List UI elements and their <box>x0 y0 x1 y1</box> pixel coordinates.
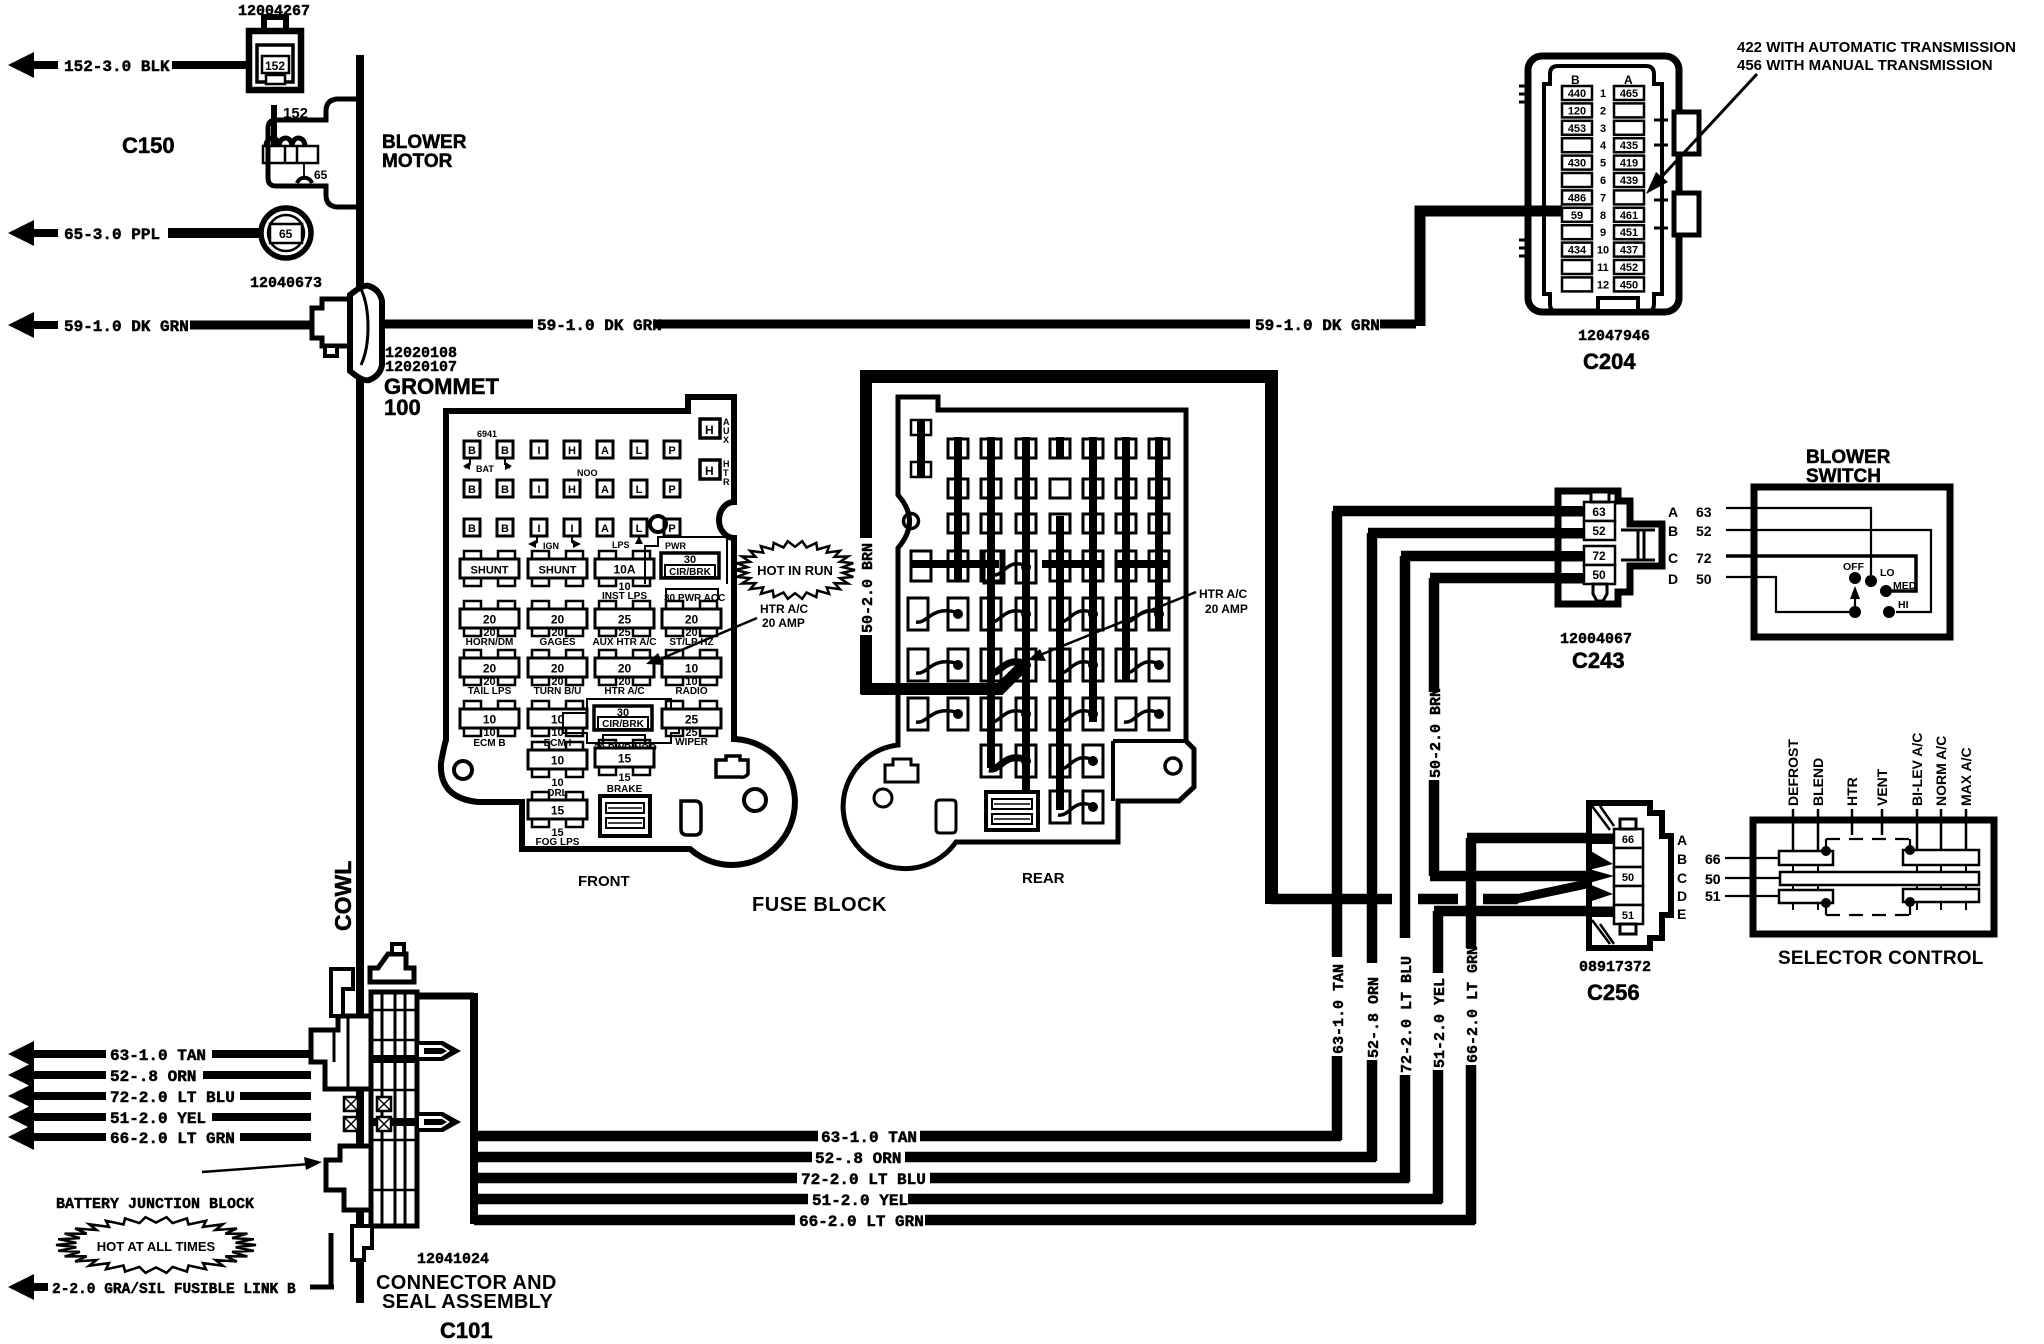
selector bar 51 right <box>1903 889 1979 902</box>
svg-text:D: D <box>1668 571 1678 587</box>
wire 72-2.0 LT BLU vertical upper <box>1400 556 1411 938</box>
svg-text:E: E <box>1677 906 1686 922</box>
svg-text:65: 65 <box>279 227 293 241</box>
pin row 1 <box>1562 86 1592 100</box>
wire 63 to C243 pin A <box>1333 506 1588 517</box>
svg-text:486: 486 <box>1568 192 1586 204</box>
svg-text:A: A <box>601 523 609 535</box>
wire arrow 63-1.0 TAN <box>8 1041 106 1067</box>
svg-text:435: 435 <box>1620 140 1638 152</box>
svg-text:DRL: DRL <box>547 788 568 799</box>
svg-text:20: 20 <box>618 662 632 676</box>
svg-text:C101: C101 <box>440 1318 493 1343</box>
svg-text:10: 10 <box>483 713 497 727</box>
svg-text:8: 8 <box>1600 210 1606 222</box>
svg-text:72-2.0 LT BLU: 72-2.0 LT BLU <box>801 1171 926 1189</box>
wire 72 to C243 pin C <box>1401 551 1588 562</box>
svg-text:R: R <box>723 477 730 487</box>
svg-text:12004067: 12004067 <box>1560 631 1632 648</box>
svg-text:66-2.0 LT GRN: 66-2.0 LT GRN <box>110 1130 235 1148</box>
C256 pin 66 (B) <box>1614 829 1643 848</box>
wire 66 into C256 pin B <box>1467 833 1614 844</box>
svg-text:A: A <box>1677 832 1687 848</box>
pin row 11 <box>1562 260 1592 274</box>
svg-text:B: B <box>1668 523 1678 539</box>
svg-text:B: B <box>468 523 476 535</box>
rear pocket c1 y649 <box>908 649 928 681</box>
wire 50-2.0 BRN into rear HTR A/C fuse <box>861 666 1023 689</box>
C256 pin 50 (C) <box>1614 867 1643 886</box>
svg-text:66-2.0 LT GRN: 66-2.0 LT GRN <box>799 1213 924 1231</box>
svg-text:HTR A/C: HTR A/C <box>604 686 644 697</box>
C204 inner housing <box>1544 66 1662 312</box>
wire 51-2.0 YEL vertical upper <box>1433 911 1444 973</box>
pin row 7 <box>1562 190 1592 204</box>
fuse block FRONT outline <box>441 397 795 865</box>
C243 top tab <box>1591 492 1609 502</box>
svg-text:65: 65 <box>314 168 328 182</box>
svg-text:I: I <box>537 523 540 535</box>
svg-text:461: 461 <box>1620 210 1638 222</box>
wire 50 wedge from fuse block <box>1516 879 1610 899</box>
svg-text:465: 465 <box>1620 88 1638 100</box>
svg-text:P: P <box>668 523 675 535</box>
selector bar 66 left <box>1779 851 1833 865</box>
AUX H cavity <box>700 419 720 438</box>
C204 right inner details <box>1654 120 1668 228</box>
svg-text:50: 50 <box>1705 871 1721 887</box>
svg-text:437: 437 <box>1620 245 1638 257</box>
fuse 15 BRAKE <box>599 740 616 749</box>
svg-text:P: P <box>668 484 675 496</box>
C243 plug detail <box>1621 530 1655 560</box>
contact OFF <box>1849 572 1861 584</box>
svg-text:51-2.0 YEL: 51-2.0 YEL <box>110 1110 206 1128</box>
svg-text:A: A <box>601 445 609 457</box>
pin row 2 <box>1562 103 1592 117</box>
wire 52-.8 ORN into C101 <box>203 1071 311 1079</box>
svg-text:52-.8 ORN: 52-.8 ORN <box>815 1150 901 1168</box>
svg-text:20: 20 <box>483 613 497 627</box>
svg-text:422 WITH AUTOMATIC TRANSMISSIO: 422 WITH AUTOMATIC TRANSMISSION <box>1737 39 2016 56</box>
wire 50-2.0 BRN rear block right drop <box>1265 370 1278 904</box>
svg-text:RADIO: RADIO <box>675 686 707 697</box>
front lobe small circle <box>744 789 766 811</box>
fuse 20 HTR A/C <box>599 650 616 659</box>
C243 pin 50 <box>1584 565 1615 584</box>
wiper junction <box>1849 606 1861 618</box>
wire stubs inside C256 <box>1589 834 1615 845</box>
svg-text:IGN: IGN <box>543 541 559 551</box>
rear pocket c3 row4 <box>984 551 1004 583</box>
svg-text:LO: LO <box>1880 567 1895 579</box>
svg-text:B: B <box>501 523 509 535</box>
svg-text:65-3.0 PPL: 65-3.0 PPL <box>64 226 160 244</box>
svg-text:I: I <box>570 523 573 535</box>
svg-text:C204: C204 <box>1583 349 1636 374</box>
C256 top tab <box>1620 819 1636 829</box>
rear bridge row c6-c7 <box>1116 551 1136 581</box>
svg-text:HOT IN RUN: HOT IN RUN <box>757 563 833 578</box>
svg-text:CIR/BRK: CIR/BRK <box>602 719 644 730</box>
selector wire 51 <box>1725 895 1779 897</box>
rear dual-slot receptacle <box>986 792 1038 830</box>
wire 52-.8 ORN bottom run <box>474 1152 812 1163</box>
wire arrow 65-3.0 PPL <box>8 220 263 246</box>
C243 pin 52 <box>1584 521 1615 540</box>
rear terminal clip rows <box>948 439 968 458</box>
C101 right pin upper <box>417 1041 461 1061</box>
svg-text:PWR: PWR <box>665 541 686 551</box>
svg-text:72-2.0 LT BLU: 72-2.0 LT BLU <box>110 1089 235 1107</box>
selector wire 66 <box>1725 857 1779 859</box>
label LPS with arrow <box>638 537 640 542</box>
leader arrow to HTR A/C fuse <box>658 618 757 660</box>
svg-text:08917372: 08917372 <box>1579 959 1651 976</box>
svg-text:WIPER: WIPER <box>675 737 709 748</box>
selector bar 51 left <box>1779 890 1833 903</box>
rear pocket c4-c5 y791 <box>1050 791 1070 823</box>
svg-text:450: 450 <box>1620 279 1638 291</box>
fuse SHUNT 1 <box>464 551 481 560</box>
svg-text:BLEND: BLEND <box>1810 758 1826 806</box>
lead 65 <box>303 163 305 177</box>
svg-text:BLOWER: BLOWER <box>382 132 467 153</box>
C204 left ridges <box>1519 86 1528 256</box>
svg-text:63: 63 <box>1696 504 1712 520</box>
leader arrow to pin 7A <box>1646 74 1757 194</box>
svg-text:51: 51 <box>1705 888 1721 904</box>
front mounting hole left <box>454 761 472 779</box>
wire 50 from rear block to C256 (segment 1) <box>1271 894 1392 905</box>
svg-text:9: 9 <box>1600 227 1606 239</box>
rear corner hole <box>1165 758 1181 774</box>
svg-text:FRONT: FRONT <box>578 873 630 890</box>
switch wire 50 (D) common <box>1726 577 1852 612</box>
svg-text:456 WITH MANUAL TRANSMISSION: 456 WITH MANUAL TRANSMISSION <box>1737 57 1993 74</box>
grommet 100 <box>312 286 382 381</box>
cowl line <box>356 55 364 1303</box>
svg-text:HORN/DM: HORN/DM <box>466 637 514 648</box>
pin row 12 <box>1562 277 1592 291</box>
rear lobe pill hole <box>936 800 956 833</box>
PWR ACC breaker surround <box>645 537 727 584</box>
svg-text:BATTERY JUNCTION BLOCK: BATTERY JUNCTION BLOCK <box>56 1196 254 1213</box>
wire arrow 152-3.0 BLK <box>8 52 250 78</box>
svg-text:HI: HI <box>1898 599 1909 611</box>
connector C204 ECM shell <box>1519 56 1699 312</box>
svg-text:52: 52 <box>1696 523 1712 539</box>
svg-text:50-2.0 BRN: 50-2.0 BRN <box>860 543 877 633</box>
fuse SHUNT 2 <box>532 551 549 560</box>
C256 pin cavity 2 <box>1614 848 1643 867</box>
C101 left flange upper <box>311 1016 371 1089</box>
wiper arrow to OFF <box>1854 593 1856 612</box>
svg-text:15: 15 <box>551 804 565 818</box>
switch wire 63 (A) <box>1726 508 1871 575</box>
rear bus bar stub c0 <box>911 420 931 435</box>
svg-text:20 AMP: 20 AMP <box>762 616 805 630</box>
wire 50 segment 2 <box>1418 894 1458 905</box>
svg-text:51-2.0 YEL: 51-2.0 YEL <box>812 1192 908 1210</box>
svg-text:66-2.0 LT GRN: 66-2.0 LT GRN <box>1465 946 1482 1063</box>
selector bar 50 <box>1780 872 1979 885</box>
svg-text:B: B <box>1677 851 1687 867</box>
svg-text:6941: 6941 <box>477 429 497 439</box>
svg-text:52: 52 <box>1592 524 1606 538</box>
pin row 3 <box>1562 121 1592 135</box>
svg-text:51: 51 <box>1622 910 1634 922</box>
connector C243 body <box>1558 491 1662 604</box>
fuse 20 ST/LP HZ <box>666 601 683 610</box>
svg-text:HOT AT ALL TIMES: HOT AT ALL TIMES <box>97 1239 216 1254</box>
fuse 10 ECM B <box>464 701 481 710</box>
wire 52-.8 ORN vertical lower <box>1367 1060 1378 1161</box>
svg-text:10A: 10A <box>613 563 635 577</box>
fuse 20 TURN B/U <box>532 650 549 659</box>
svg-text:C243: C243 <box>1572 648 1625 673</box>
HTR H cavity <box>700 460 720 479</box>
C256 circuit numbers 66 50 51 <box>1705 851 1721 904</box>
pin row 4 <box>1562 138 1592 152</box>
svg-text:50: 50 <box>1696 571 1712 587</box>
svg-text:20 AMP: 20 AMP <box>1205 602 1248 616</box>
svg-text:15: 15 <box>618 752 632 766</box>
svg-text:72-2.0 LT BLU: 72-2.0 LT BLU <box>1399 956 1416 1073</box>
wire bundle from C101 top <box>411 993 474 1000</box>
svg-text:H: H <box>568 484 576 496</box>
C256 pin letters A-E <box>1677 832 1687 922</box>
svg-text:2: 2 <box>1600 105 1606 117</box>
svg-text:C150: C150 <box>122 133 175 158</box>
wire arrow 2-2.0 GRA/SIL FUSIBLE LINK B <box>8 1274 48 1300</box>
C243 pin 72 <box>1584 546 1615 565</box>
svg-text:ECM B: ECM B <box>473 738 505 749</box>
fuse 10A INST LPS <box>599 551 616 560</box>
contact LO <box>1865 575 1877 587</box>
svg-text:439: 439 <box>1620 175 1638 187</box>
svg-text:I: I <box>537 484 540 496</box>
wire 50-2.0 BRN rear block top run <box>860 370 1278 383</box>
svg-text:A: A <box>601 484 609 496</box>
connector 12040673 (blower motor feed) <box>261 208 311 258</box>
pin row 8 <box>1562 208 1592 222</box>
svg-text:AUX HTR A/C: AUX HTR A/C <box>592 637 656 648</box>
wire arrow 51-2.0 YEL <box>8 1104 106 1130</box>
rear pocket c2-c3 y598 <box>981 598 1001 630</box>
rear pocket c2-c3 y649 <box>981 649 1001 681</box>
svg-text:52-.8 ORN: 52-.8 ORN <box>1366 977 1383 1058</box>
svg-text:66: 66 <box>1705 851 1721 867</box>
wire 66-2.0 LT GRN vertical upper <box>1466 838 1477 948</box>
fuse 20 GAGES <box>532 601 549 610</box>
connector C256 body <box>1589 803 1671 948</box>
wire arrow 59-1.0 DK GRN <box>8 312 310 338</box>
svg-text:152-3.0 BLK: 152-3.0 BLK <box>64 58 170 76</box>
svg-text:5: 5 <box>1600 158 1606 170</box>
svg-text:66: 66 <box>1622 834 1634 846</box>
svg-text:COWL: COWL <box>330 861 356 931</box>
blower motor resistor outline <box>263 99 358 207</box>
svg-text:B: B <box>501 445 509 457</box>
HOT AT ALL TIMES starburst <box>56 1217 256 1273</box>
svg-text:MOTOR: MOTOR <box>382 151 453 172</box>
fuse 10 ECM I <box>532 701 549 710</box>
svg-text:3: 3 <box>1600 123 1606 135</box>
fuse 10 DRL <box>532 742 549 751</box>
wire 51 into C256 pin E <box>1434 906 1614 917</box>
rear lobe square hole <box>885 759 918 782</box>
svg-text:L: L <box>636 523 643 535</box>
svg-text:I: I <box>537 445 540 457</box>
rear pocket c6-c7 y598 <box>1116 598 1136 630</box>
selector dashed link top <box>1826 839 1910 851</box>
contact HI <box>1883 606 1895 618</box>
C256 pin 51 (E) <box>1614 905 1643 924</box>
selector column ticks <box>1792 865 1794 910</box>
wire 72-2.0 LT BLU into C101 <box>240 1092 311 1100</box>
fuse 20 TAIL LPS <box>464 650 481 659</box>
svg-text:1: 1 <box>1600 88 1606 100</box>
svg-text:DEFROST: DEFROST <box>1785 739 1801 806</box>
wire 63-1.0 TAN vertical upper <box>1332 511 1343 957</box>
svg-text:63-1.0 TAN: 63-1.0 TAN <box>821 1129 917 1147</box>
circuit breaker 30 CIR/BRK PWR NOO <box>563 699 679 743</box>
svg-text:L: L <box>636 484 643 496</box>
front mounting hole right-mid <box>650 516 666 532</box>
C204 right lock tabs <box>1674 112 1699 154</box>
wire 50 segment 3 <box>1483 894 1518 905</box>
wire 50-2.0 BRN vertical lower <box>1429 780 1440 876</box>
wire 50 into C256 pin C <box>1430 871 1614 882</box>
front lobe square hole <box>716 756 748 777</box>
C101 crossed squares <box>344 1097 358 1111</box>
resistor element <box>263 146 318 163</box>
svg-text:59: 59 <box>1571 210 1583 222</box>
svg-text:NORM A/C: NORM A/C <box>1933 736 1949 806</box>
wire 66-2.0 LT GRN into C101 <box>240 1133 311 1141</box>
C243 pin 63 <box>1584 502 1615 521</box>
svg-text:TAIL LPS: TAIL LPS <box>468 686 512 697</box>
fuse block REAR outline <box>843 397 1194 869</box>
wire arrow 52-.8 ORN <box>8 1062 106 1088</box>
svg-text:REAR: REAR <box>1022 870 1065 887</box>
svg-text:BLOWER: BLOWER <box>1806 447 1891 468</box>
svg-text:20: 20 <box>551 662 565 676</box>
wire 59 into pin 8B overlay <box>1524 206 1562 217</box>
svg-text:MAX A/C: MAX A/C <box>1958 747 1974 806</box>
wire 51-2.0 YEL into C101 <box>212 1113 311 1121</box>
svg-text:HTR: HTR <box>1844 777 1860 806</box>
rear pocket c4-c5 y649 <box>1050 649 1070 681</box>
svg-text:25: 25 <box>685 713 699 727</box>
svg-text:H: H <box>568 445 576 457</box>
wire 52 to C243 pin B <box>1368 528 1588 539</box>
wire 50-2.0 BRN vertical upper (to C243 D) <box>1429 578 1440 692</box>
svg-text:HTR A/C: HTR A/C <box>1199 587 1248 601</box>
pin row 10 <box>1562 243 1592 257</box>
svg-text:B: B <box>468 445 476 457</box>
pin row 6 <box>1562 173 1592 187</box>
svg-text:453: 453 <box>1568 123 1586 135</box>
rear leader arrow to HTR A/C fuse <box>1040 592 1196 655</box>
blower switch housing <box>1754 487 1950 637</box>
rear pocket c1 y698 <box>908 698 928 730</box>
rear pocket c6-c7 y649 <box>1116 649 1136 681</box>
svg-text:10: 10 <box>1597 245 1609 257</box>
svg-text:63-1.0 TAN: 63-1.0 TAN <box>110 1047 206 1065</box>
svg-text:H: H <box>705 464 714 478</box>
svg-text:430: 430 <box>1568 158 1586 170</box>
rear pocket c4-c5 y598 <box>1050 598 1070 630</box>
svg-text:152: 152 <box>265 59 285 73</box>
svg-text:FUSE BLOCK: FUSE BLOCK <box>752 894 887 916</box>
svg-text:12047946: 12047946 <box>1578 328 1650 345</box>
svg-text:50-2.0 BRN: 50-2.0 BRN <box>1428 688 1445 778</box>
svg-text:SHUNT: SHUNT <box>539 565 577 577</box>
C256 bottom tab <box>1620 924 1636 934</box>
svg-text:A: A <box>1668 504 1678 520</box>
svg-text:50: 50 <box>1592 568 1606 582</box>
harness bundle drop <box>470 993 478 1224</box>
svg-text:7: 7 <box>1600 192 1606 204</box>
label IGN with arrows <box>533 537 576 545</box>
C101 bottom tail <box>352 1226 372 1260</box>
selector bar 66 right <box>1903 850 1979 865</box>
svg-text:12041024: 12041024 <box>417 1251 489 1268</box>
switch wire 52 (B) <box>1726 530 1931 612</box>
rear pocket c2-c3 y745 <box>981 745 1001 777</box>
wire 63-1.0 TAN bottom run <box>474 1131 818 1142</box>
svg-text:59-1.0 DK GRN: 59-1.0 DK GRN <box>537 317 662 335</box>
rear pocket c1 y598 <box>908 598 928 630</box>
wire 50 to C243 pin D <box>1430 573 1588 584</box>
svg-text:D: D <box>1677 888 1687 904</box>
wire arrow 72-2.0 LT BLU <box>8 1083 106 1109</box>
selector wire 50 <box>1725 877 1780 879</box>
svg-text:10: 10 <box>685 662 699 676</box>
front lobe pill hole <box>681 801 701 835</box>
C256 strain relief hatch <box>1592 806 1614 944</box>
C101 left hook <box>331 969 353 1016</box>
rear notch hole <box>904 514 919 529</box>
svg-text:12: 12 <box>1597 279 1609 291</box>
svg-text:MED: MED <box>1893 580 1917 592</box>
wire 72-2.0 LT BLU bottom run <box>474 1173 797 1184</box>
svg-text:51-2.0 YEL: 51-2.0 YEL <box>1432 978 1449 1068</box>
svg-text:50: 50 <box>1622 872 1634 884</box>
connector C150 body <box>249 17 301 90</box>
svg-text:H: H <box>705 423 714 437</box>
wire 59-1.0 DK GRN run to C204 <box>380 211 1560 329</box>
svg-text:SELECTOR CONTROL: SELECTOR CONTROL <box>1778 948 1984 969</box>
svg-text:25: 25 <box>618 613 632 627</box>
svg-text:152: 152 <box>283 105 308 122</box>
rear bus bars <box>954 437 962 581</box>
rear pocket c2-c3 y698 <box>981 698 1001 730</box>
svg-text:X: X <box>723 435 729 445</box>
svg-text:20: 20 <box>551 613 565 627</box>
svg-text:52-.8 ORN: 52-.8 ORN <box>110 1068 196 1086</box>
svg-text:BRAKE: BRAKE <box>607 784 643 795</box>
rear bridge row c1-c2 <box>911 551 931 581</box>
svg-text:2-2.0 GRA/SIL FUSIBLE LINK B: 2-2.0 GRA/SIL FUSIBLE LINK B <box>52 1282 296 1298</box>
svg-text:59-1.0 DK GRN: 59-1.0 DK GRN <box>64 318 189 336</box>
svg-text:NOO: NOO <box>577 468 598 478</box>
C243 bottom tab <box>1593 584 1607 601</box>
svg-text:120: 120 <box>1568 105 1586 117</box>
rear pocket c4-c5 y698 <box>1050 698 1070 730</box>
